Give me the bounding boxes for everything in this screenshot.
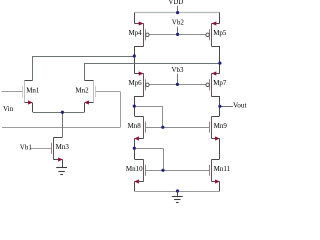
wire Mp5 drain to node B: [219, 46, 221, 63]
svg-text:Mp5: Mp5: [213, 29, 227, 37]
wire Vb2 stub: [177, 27, 179, 35]
junction cascode gate rail: [161, 126, 164, 129]
wire Vin to Mn1 gate: [2, 91, 23, 93]
wire Mn1 drain to node A: [33, 56, 134, 58]
wire Mn8-Mn9 gate rail: [145, 127, 209, 129]
node C junction (Mp6 drain / Mn8 drain / gate tap): [133, 105, 136, 108]
junction mirror diode tap: [133, 147, 136, 150]
transistor Mn10: [126, 160, 146, 184]
wire Mp6 drain to node C: [134, 96, 136, 106]
wire Vb1 to Mn3 gate: [31, 148, 52, 150]
wire VDD to Mp4 source: [134, 13, 136, 24]
wire Mn8 source to Mn10 drain: [134, 138, 136, 159]
svg-text:Vout: Vout: [233, 102, 246, 110]
wire Mp4 drain to node A: [134, 46, 136, 56]
wire Mn10 source to ground rail: [134, 182, 136, 192]
wire ground stub: [177, 191, 179, 196]
wire Mn2 drain to node B: [84, 63, 220, 65]
svg-text:Vin: Vin: [3, 105, 14, 113]
ground under Mn3: [56, 168, 67, 175]
transistor Mn8: [128, 117, 146, 141]
svg-text:Mn8: Mn8: [128, 122, 142, 130]
junction Vb3: [176, 83, 179, 86]
wire Vb2 gate rail: [149, 34, 206, 36]
svg-text:Vb1: Vb1: [20, 143, 33, 151]
junction tail node: [61, 111, 64, 114]
transistor Mp7: [206, 71, 227, 96]
transistor Mn9: [210, 117, 228, 141]
wire Mn2 source down: [84, 103, 86, 112]
transistor Mp5: [206, 21, 227, 46]
wire Mn10-Mn11 gate rail: [145, 170, 209, 172]
wire Mn9 source to Mn11 drain: [219, 138, 221, 159]
transistor Mn3: [52, 138, 70, 162]
transistor Mn11: [210, 160, 231, 184]
junction ground rail: [176, 189, 179, 192]
svg-text:Mn1: Mn1: [26, 86, 40, 94]
wire VDD to Mp5 source: [219, 13, 221, 24]
svg-text:Vb2: Vb2: [172, 19, 185, 27]
transistor Mp4: [128, 21, 149, 46]
wire Mn1 drain vertical: [32, 56, 34, 81]
junction Vb2: [176, 33, 179, 36]
wire tail node horizontal: [33, 112, 84, 114]
svg-text:VDD: VDD: [168, 0, 183, 6]
wire Vout: [220, 106, 233, 108]
wire Mn1 source down: [32, 103, 34, 112]
wire tail to Mn3 drain: [62, 112, 64, 137]
wire VDD stub: [177, 6, 179, 13]
wire node C to Mn8 drain: [134, 106, 136, 116]
transistor Mn1: [23, 81, 40, 105]
wire Mn11 source to ground rail: [219, 182, 221, 192]
node B junction (Mp5 drain / Mn2 drain / Mp7 source): [218, 62, 221, 65]
wire Mn3 source to ground: [62, 160, 64, 168]
svg-text:Mn2: Mn2: [75, 86, 89, 94]
wire Mn2 gate loop vertical: [120, 92, 122, 128]
svg-text:Mn10: Mn10: [126, 165, 143, 173]
node Vout junction: [218, 105, 221, 108]
wire node B to Mp7 source: [219, 63, 221, 74]
node A junction (Mp4 drain / Mn1 drain / Mp6 source): [133, 54, 136, 57]
wire node C to cascode gate tap: [134, 106, 163, 108]
wire inverting input: [2, 127, 120, 129]
wire ground rail: [134, 191, 220, 193]
wire node A to Mp6 source: [134, 56, 136, 74]
svg-text:Mp7: Mp7: [213, 79, 227, 87]
svg-text:Vb3: Vb3: [171, 66, 184, 74]
wire VDD rail: [134, 12, 220, 14]
ground main: [172, 197, 183, 203]
svg-text:Mn3: Mn3: [56, 143, 70, 151]
wire Mn2 drain vertical: [84, 63, 86, 80]
wire mirror diode tap vertical: [163, 148, 165, 170]
wire Mp7 drain to Vout node: [219, 96, 221, 106]
wire Vout node to Mn9 drain: [219, 106, 221, 116]
svg-text:Mn11: Mn11: [214, 165, 231, 173]
wire Vb3 stub: [177, 74, 179, 85]
svg-text:Mp6: Mp6: [128, 79, 142, 87]
wire Mn2 gate east: [95, 91, 120, 93]
junction mirror gate rail: [161, 169, 164, 172]
transistor Mn2: [75, 81, 95, 105]
wire mirror diode tap horizontal: [134, 148, 163, 150]
svg-text:Mn9: Mn9: [214, 122, 228, 130]
wire Vb3 gate rail: [149, 84, 206, 86]
svg-text:Mp4: Mp4: [128, 29, 142, 37]
transistor Mp6: [128, 71, 149, 96]
wire cascode gate tap vertical: [162, 106, 164, 127]
junction VDD: [176, 11, 179, 14]
